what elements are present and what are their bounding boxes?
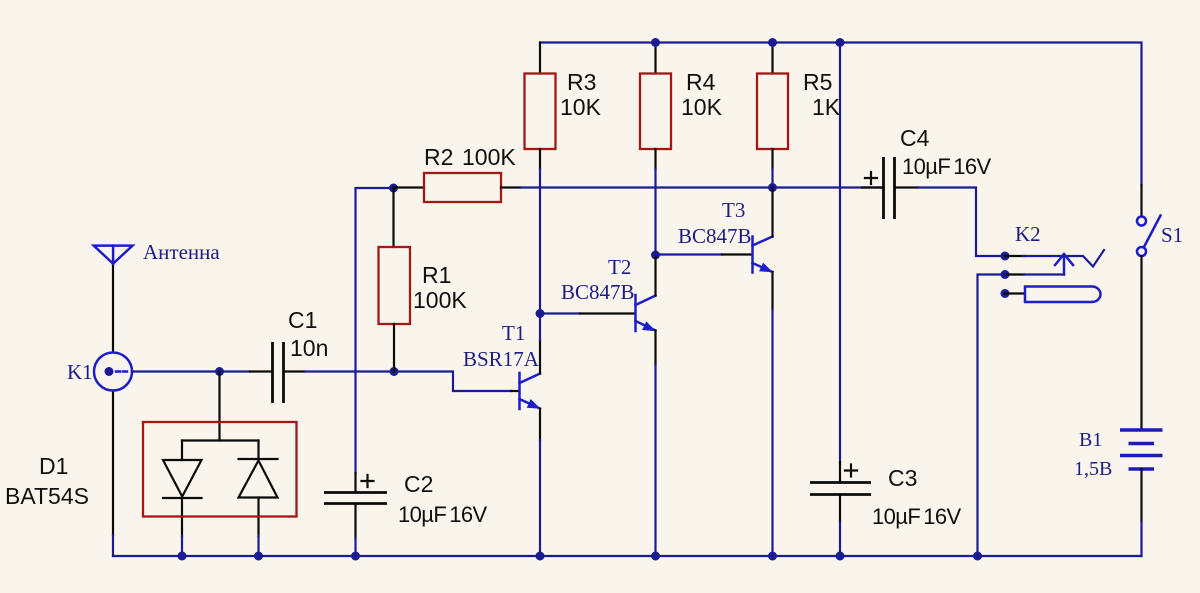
wire battery to ground	[1140, 522, 1142, 556]
wire C2 to ground	[354, 538, 356, 556]
svg-text:R4: R4	[686, 69, 716, 95]
T2 emitter lead	[654, 331, 656, 366]
wire D1 right to ground	[257, 536, 259, 556]
svg-text:T2: T2	[608, 255, 631, 279]
wire	[305, 370, 394, 372]
wire R2 node down to C2	[356, 188, 394, 473]
svg-text:100K: 100K	[462, 144, 516, 170]
connector K2 pin1	[1001, 252, 1010, 261]
svg-text:S1: S1	[1161, 223, 1183, 247]
svg-text:R2: R2	[424, 144, 453, 170]
jack switch arrow	[1055, 254, 1073, 275]
capacitor C2	[324, 473, 387, 538]
node dot	[768, 38, 777, 47]
wire S1 to battery	[1140, 256, 1142, 430]
D1 box	[143, 422, 297, 517]
node dot	[351, 552, 360, 561]
wire	[580, 312, 634, 314]
node dot	[254, 552, 263, 561]
wire	[1024, 273, 1064, 275]
svg-text:Антенна: Антенна	[143, 240, 220, 264]
diode D1 BAT54S	[163, 441, 278, 537]
T2 collector lead	[654, 255, 656, 296]
left rail wire K1 to ground	[112, 391, 114, 536]
wire T2 emitter to ground	[654, 365, 656, 556]
wire R5 to node	[771, 169, 773, 188]
node dot	[536, 309, 545, 318]
svg-text:10µF16V: 10µF16V	[872, 504, 961, 529]
bottom ground rail wire	[113, 555, 1142, 557]
wire C4 to K2 pin1	[918, 188, 1005, 257]
connector K2 pin3	[1001, 289, 1010, 298]
wire T1 collector to T2 base	[540, 312, 580, 314]
wire D1 left to ground	[181, 536, 183, 556]
svg-text:BAT54S: BAT54S	[5, 483, 89, 509]
wire T3 emitter to ground	[771, 310, 773, 556]
resistor R4	[640, 43, 671, 170]
svg-text:C3: C3	[888, 465, 917, 491]
capacitor C4	[862, 157, 918, 219]
svg-text:R1: R1	[422, 262, 451, 288]
wire R2 to C4 feed line	[521, 186, 882, 188]
T1 collector lead	[539, 340, 541, 374]
svg-text:10n: 10n	[290, 335, 328, 361]
svg-text:C2: C2	[404, 471, 433, 497]
node dot R1 R2 junction	[389, 184, 398, 193]
wire node to T1 base	[394, 372, 511, 392]
antenna lead wire	[112, 264, 114, 352]
svg-text:100K: 100K	[413, 287, 467, 313]
capacitor C3	[810, 462, 871, 522]
svg-text:C1: C1	[288, 307, 317, 333]
wire C1 to T1 base node	[285, 370, 305, 372]
resistor R5	[757, 43, 788, 170]
connector K2 pin2	[1001, 270, 1010, 279]
svg-text:T3: T3	[722, 198, 745, 222]
svg-text:1K: 1K	[812, 94, 841, 120]
diode D1 lead wire	[218, 372, 220, 441]
resistor R1	[379, 188, 411, 372]
wire R3 to T1 collector	[539, 169, 541, 314]
node dot	[215, 367, 224, 376]
battery B1	[1120, 430, 1163, 469]
top supply rail wire	[540, 43, 1142, 186]
svg-text:D1: D1	[39, 453, 68, 479]
wire	[511, 390, 518, 392]
resistor R3	[525, 43, 556, 170]
T3 collector lead	[771, 188, 773, 237]
node dot	[390, 367, 399, 376]
wire	[722, 253, 751, 255]
svg-text:10µF16V: 10µF16V	[902, 154, 991, 179]
node dot	[651, 251, 660, 260]
svg-text:K1: K1	[67, 360, 93, 384]
node dot	[536, 552, 545, 561]
wire T1 emitter to ground	[539, 440, 541, 556]
node dot	[973, 552, 982, 561]
capacitor C1	[273, 342, 284, 403]
node dot	[836, 38, 845, 47]
node dot	[178, 552, 187, 561]
wire	[112, 535, 114, 556]
wire R4 to T2 collector	[654, 169, 656, 255]
svg-text:10K: 10K	[681, 94, 723, 120]
wire	[539, 314, 541, 341]
node dot	[651, 552, 660, 561]
connector K1	[94, 353, 132, 391]
svg-text:10K: 10K	[560, 94, 602, 120]
node dot	[768, 552, 777, 561]
T3 emitter lead	[771, 272, 773, 310]
wire	[1005, 273, 1024, 275]
wire C3 to ground	[839, 522, 841, 556]
switch S1	[1137, 185, 1161, 256]
svg-text:K2: K2	[1015, 222, 1041, 246]
transistor T1 BSR17A	[520, 373, 541, 409]
svg-text:1,5В: 1,5В	[1074, 458, 1112, 480]
svg-text:C4: C4	[900, 125, 930, 151]
wire	[1005, 292, 1024, 294]
svg-text:10µF16V: 10µF16V	[398, 502, 487, 527]
wire K2 pin2 to ground	[978, 275, 1006, 557]
transistor T3 BC847B	[753, 237, 774, 273]
jack plug symbol	[1025, 287, 1100, 303]
svg-text:BC847B: BC847B	[561, 280, 635, 304]
wire jack tip contact	[1024, 250, 1104, 267]
wire	[1005, 255, 1024, 257]
T1 emitter lead	[539, 409, 541, 440]
resistor R2	[394, 173, 522, 202]
wire K1 to C1	[132, 370, 250, 372]
wire	[250, 370, 271, 372]
node dot	[836, 552, 845, 561]
node dot	[768, 183, 777, 192]
antenna symbol	[94, 246, 133, 264]
svg-text:R5: R5	[803, 69, 832, 95]
svg-text:BC847B: BC847B	[678, 224, 752, 248]
svg-text:B1: B1	[1079, 429, 1102, 451]
svg-text:T1: T1	[502, 321, 525, 345]
svg-text:R3: R3	[567, 69, 596, 95]
wire T2 collector node to T3 base	[656, 253, 723, 255]
node dot	[651, 38, 660, 47]
wire supply rail to C3	[839, 43, 841, 463]
svg-text:BSR17A: BSR17A	[463, 347, 540, 371]
battery lead wire	[1140, 469, 1142, 522]
transistor T2 BC847B	[636, 295, 657, 331]
